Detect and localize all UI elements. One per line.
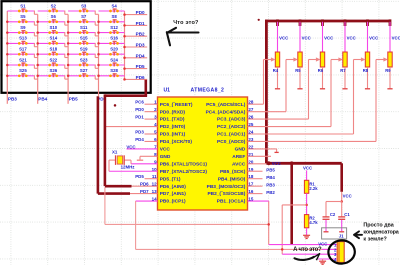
switch S12 [109, 25, 119, 34]
svg-text:PC2_(ADC2): PC2_(ADC2) [217, 124, 246, 130]
svg-text:PD5: PD5 [135, 174, 144, 179]
wire pin 23 to R9 [248, 57, 389, 141]
wire pin 26 to R6 [248, 57, 321, 119]
svg-text:VCC: VCC [343, 194, 352, 199]
node PB5 (matrix column label) [69, 97, 78, 102]
svg-text:PD4_(XCK/T0): PD4_(XCK/T0) [160, 139, 193, 145]
svg-text:Просто два: Просто два [363, 222, 394, 228]
svg-text:ATMEGA8_2: ATMEGA8_2 [191, 87, 225, 93]
switch S27 [79, 68, 89, 77]
switch S25 [18, 68, 28, 77]
resistor R5 [295, 22, 310, 89]
svg-text:PB4: PB4 [38, 97, 47, 102]
junction dots row PD0 [123, 13, 126, 16]
switch S24 [109, 57, 119, 66]
svg-text:S22: S22 [49, 57, 57, 62]
capacitor C2 [323, 212, 336, 219]
annotation text 'Prosto dva kondensatora k zemle?' [363, 222, 399, 242]
svg-text:GND: GND [235, 147, 246, 153]
switch S9 [18, 25, 28, 34]
svg-text:VCC: VCC [126, 144, 136, 149]
svg-text:R5: R5 [295, 68, 301, 73]
wire pin 21 AREF stub [248, 155, 272, 157]
switch S26 [48, 68, 58, 77]
wire pin 22 GND with terminal [248, 149, 279, 153]
wire pin 4 (PD2) to matrix column [105, 126, 157, 128]
wire connector pin1 (VCC) [269, 241, 338, 246]
svg-text:PD3: PD3 [136, 43, 145, 48]
wire pin 28 to R4 [248, 57, 276, 104]
svg-text:PB6_(XTAL1/TOSC1): PB6_(XTAL1/TOSC1) [160, 161, 208, 167]
junction divider tap [305, 204, 308, 207]
switch S28 [109, 68, 119, 77]
svg-text:S17: S17 [19, 47, 27, 52]
wire pin 19 stub / node PB5 [248, 168, 276, 173]
wire column right jog vertical [124, 11, 126, 80]
svg-text:PB1_(OC1A): PB1_(OC1A) [217, 199, 246, 205]
crystal X1 [112, 149, 135, 169]
power bus VCC (thick) top [265, 20, 391, 164]
wire (thick) VCC drop to connector [290, 163, 293, 244]
U1 pin numbers [152, 100, 254, 202]
switch S18 [48, 47, 58, 56]
svg-text:S28: S28 [110, 68, 118, 73]
wire pin 5 stub / node PD3 [135, 130, 157, 135]
svg-text:PB4: PB4 [266, 175, 275, 180]
svg-text:PD0: PD0 [135, 107, 144, 112]
svg-text:VCC: VCC [347, 36, 356, 41]
node PB2 (matrix row label) [136, 32, 145, 37]
node PD4 (matrix row label) [136, 53, 145, 58]
switch S11 [79, 25, 89, 34]
svg-text:VCC: VCC [279, 36, 288, 41]
svg-text:S20: S20 [110, 47, 118, 52]
wire pin 2 stub / node PD0 [135, 107, 157, 112]
svg-text:PD1: PD1 [136, 21, 145, 26]
wire connector pin2 [322, 248, 337, 250]
op-amp U1 ATMEGA8_2 body (MCU) [158, 97, 248, 210]
node PD0 (matrix row label) [136, 10, 145, 15]
junction dot near matrix [114, 104, 117, 107]
svg-text:R8: R8 [363, 68, 369, 73]
node PD5 (matrix row label) [136, 64, 145, 69]
svg-text:PB3_(MOSI/OC2): PB3_(MOSI/OC2) [207, 184, 246, 190]
junction dots row PD3 [6, 42, 126, 48]
svg-text:S11: S11 [80, 25, 88, 30]
svg-text:PB7_(XTAL2/TOSC2): PB7_(XTAL2/TOSC2) [160, 169, 208, 175]
svg-text:PD4: PD4 [136, 53, 145, 58]
svg-text:X1: X1 [112, 149, 118, 154]
node PD1 (matrix row label) [136, 21, 145, 26]
svg-text:PC3_(ADC3): PC3_(ADC3) [217, 117, 246, 123]
annotation arrow to J1 box (pointing left) [354, 231, 362, 238]
switch S8 [109, 14, 119, 23]
svg-text:к земле?: к земле? [363, 237, 386, 243]
svg-text:VCC: VCC [160, 147, 171, 153]
switch S6 [48, 14, 58, 23]
node PD6 (matrix row label) [136, 75, 145, 80]
svg-text:GND: GND [160, 154, 171, 160]
svg-text:S16: S16 [110, 36, 118, 41]
wire R2 to ground [306, 228, 308, 235]
wire row PD4 [7, 54, 147, 58]
U1 value ATMEGA8_2 [191, 87, 225, 93]
wire pin 17 stub / node PB3 [248, 183, 276, 188]
wire column PB3 vertical [6, 11, 8, 104]
wire pin 27 to R5 [248, 57, 299, 111]
switch S16 [109, 36, 119, 45]
svg-text:J1: J1 [339, 234, 344, 239]
node PD3 (matrix row label) [136, 43, 145, 48]
svg-text:S7: S7 [81, 14, 87, 19]
svg-text:VCC: VCC [272, 161, 281, 166]
wire column PD7 vertical [98, 14, 100, 96]
wire pin 18 stub / node PB4 [248, 175, 276, 180]
resistor R9 [385, 22, 400, 89]
switch S4 [109, 3, 119, 12]
svg-text:PD1_(TXD): PD1_(TXD) [160, 117, 185, 123]
svg-text:PD3_(INT1): PD3_(INT1) [160, 132, 186, 138]
svg-text:R9: R9 [385, 68, 391, 73]
power VCC terminal above R1 [303, 165, 312, 180]
svg-text:S24: S24 [110, 57, 118, 62]
svg-text:S4: S4 [111, 3, 117, 8]
keypad matrix border frame [2, 1, 151, 93]
switch S10 [48, 25, 58, 34]
power VCC terminal pin 7 [126, 144, 157, 149]
svg-text:PD1: PD1 [135, 115, 144, 120]
svg-text:AVCC: AVCC [232, 161, 246, 167]
svg-text:PD4: PD4 [135, 137, 144, 142]
svg-text:PC4_(ADC4/SDA): PC4_(ADC4/SDA) [206, 109, 246, 115]
resistor R4 [273, 22, 288, 89]
svg-text:VCC: VCC [303, 165, 312, 170]
junction capacitor feed [340, 200, 343, 203]
wire pin 14 (PB0) to connector [136, 201, 338, 249]
wire row PD5 [7, 65, 147, 69]
wire column PB4 vertical [37, 14, 39, 103]
wire (thick) PD7 net from matrix to pin 13 [98, 96, 158, 194]
svg-text:PD7: PD7 [140, 189, 149, 194]
node PD7 (matrix column label) [97, 96, 106, 101]
svg-text:PC5_(ADC5/SCL): PC5_(ADC5/SCL) [206, 102, 246, 108]
svg-text:U1: U1 [164, 87, 171, 93]
U1 reference designator [164, 87, 171, 93]
wire divider tap to connector row3 [281, 205, 307, 254]
svg-text:PB2: PB2 [266, 190, 275, 195]
switch S1 [18, 3, 28, 12]
resistor R6 [318, 22, 333, 89]
wire to C2 [326, 202, 342, 217]
switch S20 [109, 47, 119, 56]
wire row PD6 [7, 75, 147, 79]
svg-text:PD6: PD6 [136, 75, 145, 80]
wire pin 6 stub / node PD4 [135, 137, 157, 142]
svg-text:PD6: PD6 [140, 182, 149, 187]
U1 pin name labels [160, 101, 246, 205]
wire R1 to R2 [306, 193, 308, 214]
wire column PB5 vertical [67, 14, 69, 103]
resistor R7 [340, 22, 355, 89]
svg-text:S12: S12 [110, 25, 118, 30]
svg-text:PB2_(‾SS/OC1B): PB2_(‾SS/OC1B) [207, 190, 245, 197]
svg-text:R4: R4 [273, 68, 279, 73]
node PB4 (matrix column label) [38, 97, 47, 102]
junction dots row PD5 [6, 64, 126, 70]
svg-text:конденсатора: конденсатора [363, 229, 399, 235]
svg-text:S9: S9 [20, 25, 26, 30]
switch S13 [18, 36, 28, 45]
ground on connector pin4 wire [319, 259, 326, 264]
svg-text:VCC: VCC [324, 36, 333, 41]
ground below R2 [303, 235, 310, 238]
switch S19 [79, 47, 89, 56]
svg-text:S2: S2 [51, 3, 57, 8]
connector J1 box outline [322, 228, 347, 239]
power rail VCC (thick) horizontal [266, 162, 341, 165]
node PB3 (matrix column label) [8, 97, 17, 102]
svg-text:PD3: PD3 [135, 130, 144, 135]
svg-text:S13: S13 [19, 36, 27, 41]
wire pin 16 stub / node PB2 [248, 190, 276, 195]
svg-text:PB3: PB3 [8, 97, 17, 102]
wire connector pin3 [282, 253, 337, 255]
svg-text:R7: R7 [340, 68, 346, 73]
svg-text:PD0_(RXD): PD0_(RXD) [160, 109, 186, 115]
capacitor C1 [338, 212, 350, 219]
wire row PD1 [7, 21, 147, 25]
connector (4-pin header) [337, 242, 344, 263]
svg-text:PB0_(ICP1): PB0_(ICP1) [160, 199, 186, 205]
switch S17 [18, 47, 28, 56]
svg-text:VCC: VCC [318, 241, 327, 246]
svg-text:S5: S5 [20, 14, 26, 19]
switch S23 [79, 57, 89, 66]
svg-text:PD5: PD5 [136, 64, 145, 69]
svg-text:4.7k: 4.7k [309, 220, 318, 225]
svg-text:S3: S3 [81, 3, 87, 8]
svg-text:S21: S21 [19, 57, 27, 62]
wire pin 11 stub / node PD5 [135, 174, 157, 179]
svg-text:S6: S6 [51, 14, 57, 19]
svg-text:S15: S15 [80, 36, 88, 41]
svg-text:S25: S25 [19, 68, 27, 73]
junction dots row PB2 [6, 31, 126, 37]
resistor R2 [304, 215, 318, 228]
svg-text:S18: S18 [49, 47, 57, 52]
svg-text:PD0: PD0 [136, 10, 145, 15]
svg-text:VCC: VCC [392, 36, 400, 41]
svg-text:Что это?: Что это? [173, 20, 199, 26]
svg-text:S1: S1 [20, 3, 26, 8]
svg-text:PB2: PB2 [136, 32, 145, 37]
wire pin 20 AVCC to VCC rail [248, 163, 267, 165]
wire row PD3 [7, 43, 147, 47]
svg-text:PB5: PB5 [266, 168, 275, 173]
svg-text:S8: S8 [111, 14, 117, 19]
junction dots row PD4 [6, 53, 126, 59]
wire connector pin4 (to ground) [318, 258, 337, 260]
wire pin 24 to R8 [248, 57, 366, 134]
wire pin 25 to R7 [248, 57, 344, 126]
switch S21 [18, 57, 28, 66]
wire crystal to pin 9 (XTAL1) [124, 160, 157, 164]
svg-text:PB3: PB3 [266, 183, 275, 188]
switch S22 [48, 57, 58, 66]
wire pin 3 stub / node PD1 [135, 115, 157, 120]
svg-text:R6: R6 [318, 68, 324, 73]
svg-text:PC0_(ADC0): PC0_(ADC0) [217, 139, 246, 145]
svg-text:VCC: VCC [302, 36, 311, 41]
switch S5 [18, 14, 28, 23]
svg-text:12MHz: 12MHz [121, 165, 136, 170]
wire long bottom run to pin 15 [105, 187, 270, 244]
svg-text:PB5_(SCK): PB5_(SCK) [220, 169, 246, 175]
switch S3 [79, 3, 89, 12]
wire to C1 [341, 202, 343, 217]
wire pin 1 stub / node PC6 [135, 100, 157, 105]
annotation hand-drawn circle around connector [328, 240, 356, 265]
junction dots row PD6 [6, 75, 126, 81]
svg-text:VCC: VCC [369, 36, 378, 41]
switch S15 [79, 36, 89, 45]
junction VCC rail to connector drop [290, 161, 294, 165]
switch S14 [48, 36, 58, 45]
svg-text:S26: S26 [49, 68, 57, 73]
svg-text:C2: C2 [330, 212, 336, 217]
junction dots row PD1 [6, 21, 126, 27]
wire C2 to J1 box [324, 220, 329, 232]
svg-text:S10: S10 [49, 25, 57, 30]
connector pin numbers [334, 243, 337, 262]
ground (pin 8 GND) [137, 156, 158, 160]
svg-text:PB5: PB5 [69, 97, 78, 102]
wire row PB2 [7, 32, 147, 36]
annotation arrow top (pointing left at matrix) [167, 28, 199, 46]
svg-text:AREF: AREF [232, 154, 245, 160]
svg-text:PD5_(T1): PD5_(T1) [160, 176, 181, 182]
svg-text:PD6_(AIN0): PD6_(AIN0) [160, 184, 187, 190]
svg-text:PC1_(ADC1): PC1_(ADC1) [217, 132, 246, 138]
resistor R1 [304, 180, 318, 193]
power VCC terminal above capacitors [342, 163, 352, 201]
svg-text:PD7_(AIN1): PD7_(AIN1) [160, 191, 187, 197]
annotation text 'A chto eto?' [293, 247, 322, 253]
svg-text:А что это?: А что это? [293, 247, 322, 253]
resistor R8 [363, 22, 378, 89]
junction dot stray top-left of bus [258, 19, 260, 21]
annotation text 'Chto eto?' top [173, 20, 199, 26]
svg-text:S27: S27 [80, 68, 88, 73]
wire (thick) PD6 net from matrix to pin 12 [105, 80, 158, 187]
switch S7 [79, 14, 89, 23]
svg-text:S19: S19 [80, 47, 88, 52]
wire crystal to pin 10 (XTAL2) [109, 160, 158, 171]
power VCC junction at AVCC [267, 161, 281, 166]
svg-text:C1: C1 [344, 212, 350, 217]
annotation curved arrow to connector [295, 254, 320, 261]
switch S2 [48, 3, 58, 12]
svg-text:PB4_(MISO): PB4_(MISO) [218, 176, 246, 182]
wire C1 to J1 box [339, 220, 344, 232]
svg-text:PD2_(INT0): PD2_(INT0) [160, 124, 186, 130]
svg-text:S23: S23 [80, 57, 88, 62]
svg-text:PC6_(‾RESET): PC6_(‾RESET) [160, 101, 193, 108]
bus junction dots [276, 19, 391, 26]
svg-text:S14: S14 [49, 36, 57, 41]
wire row PD0 [7, 11, 147, 15]
svg-text:PC6: PC6 [135, 100, 144, 105]
svg-text:2.2k: 2.2k [309, 186, 318, 191]
